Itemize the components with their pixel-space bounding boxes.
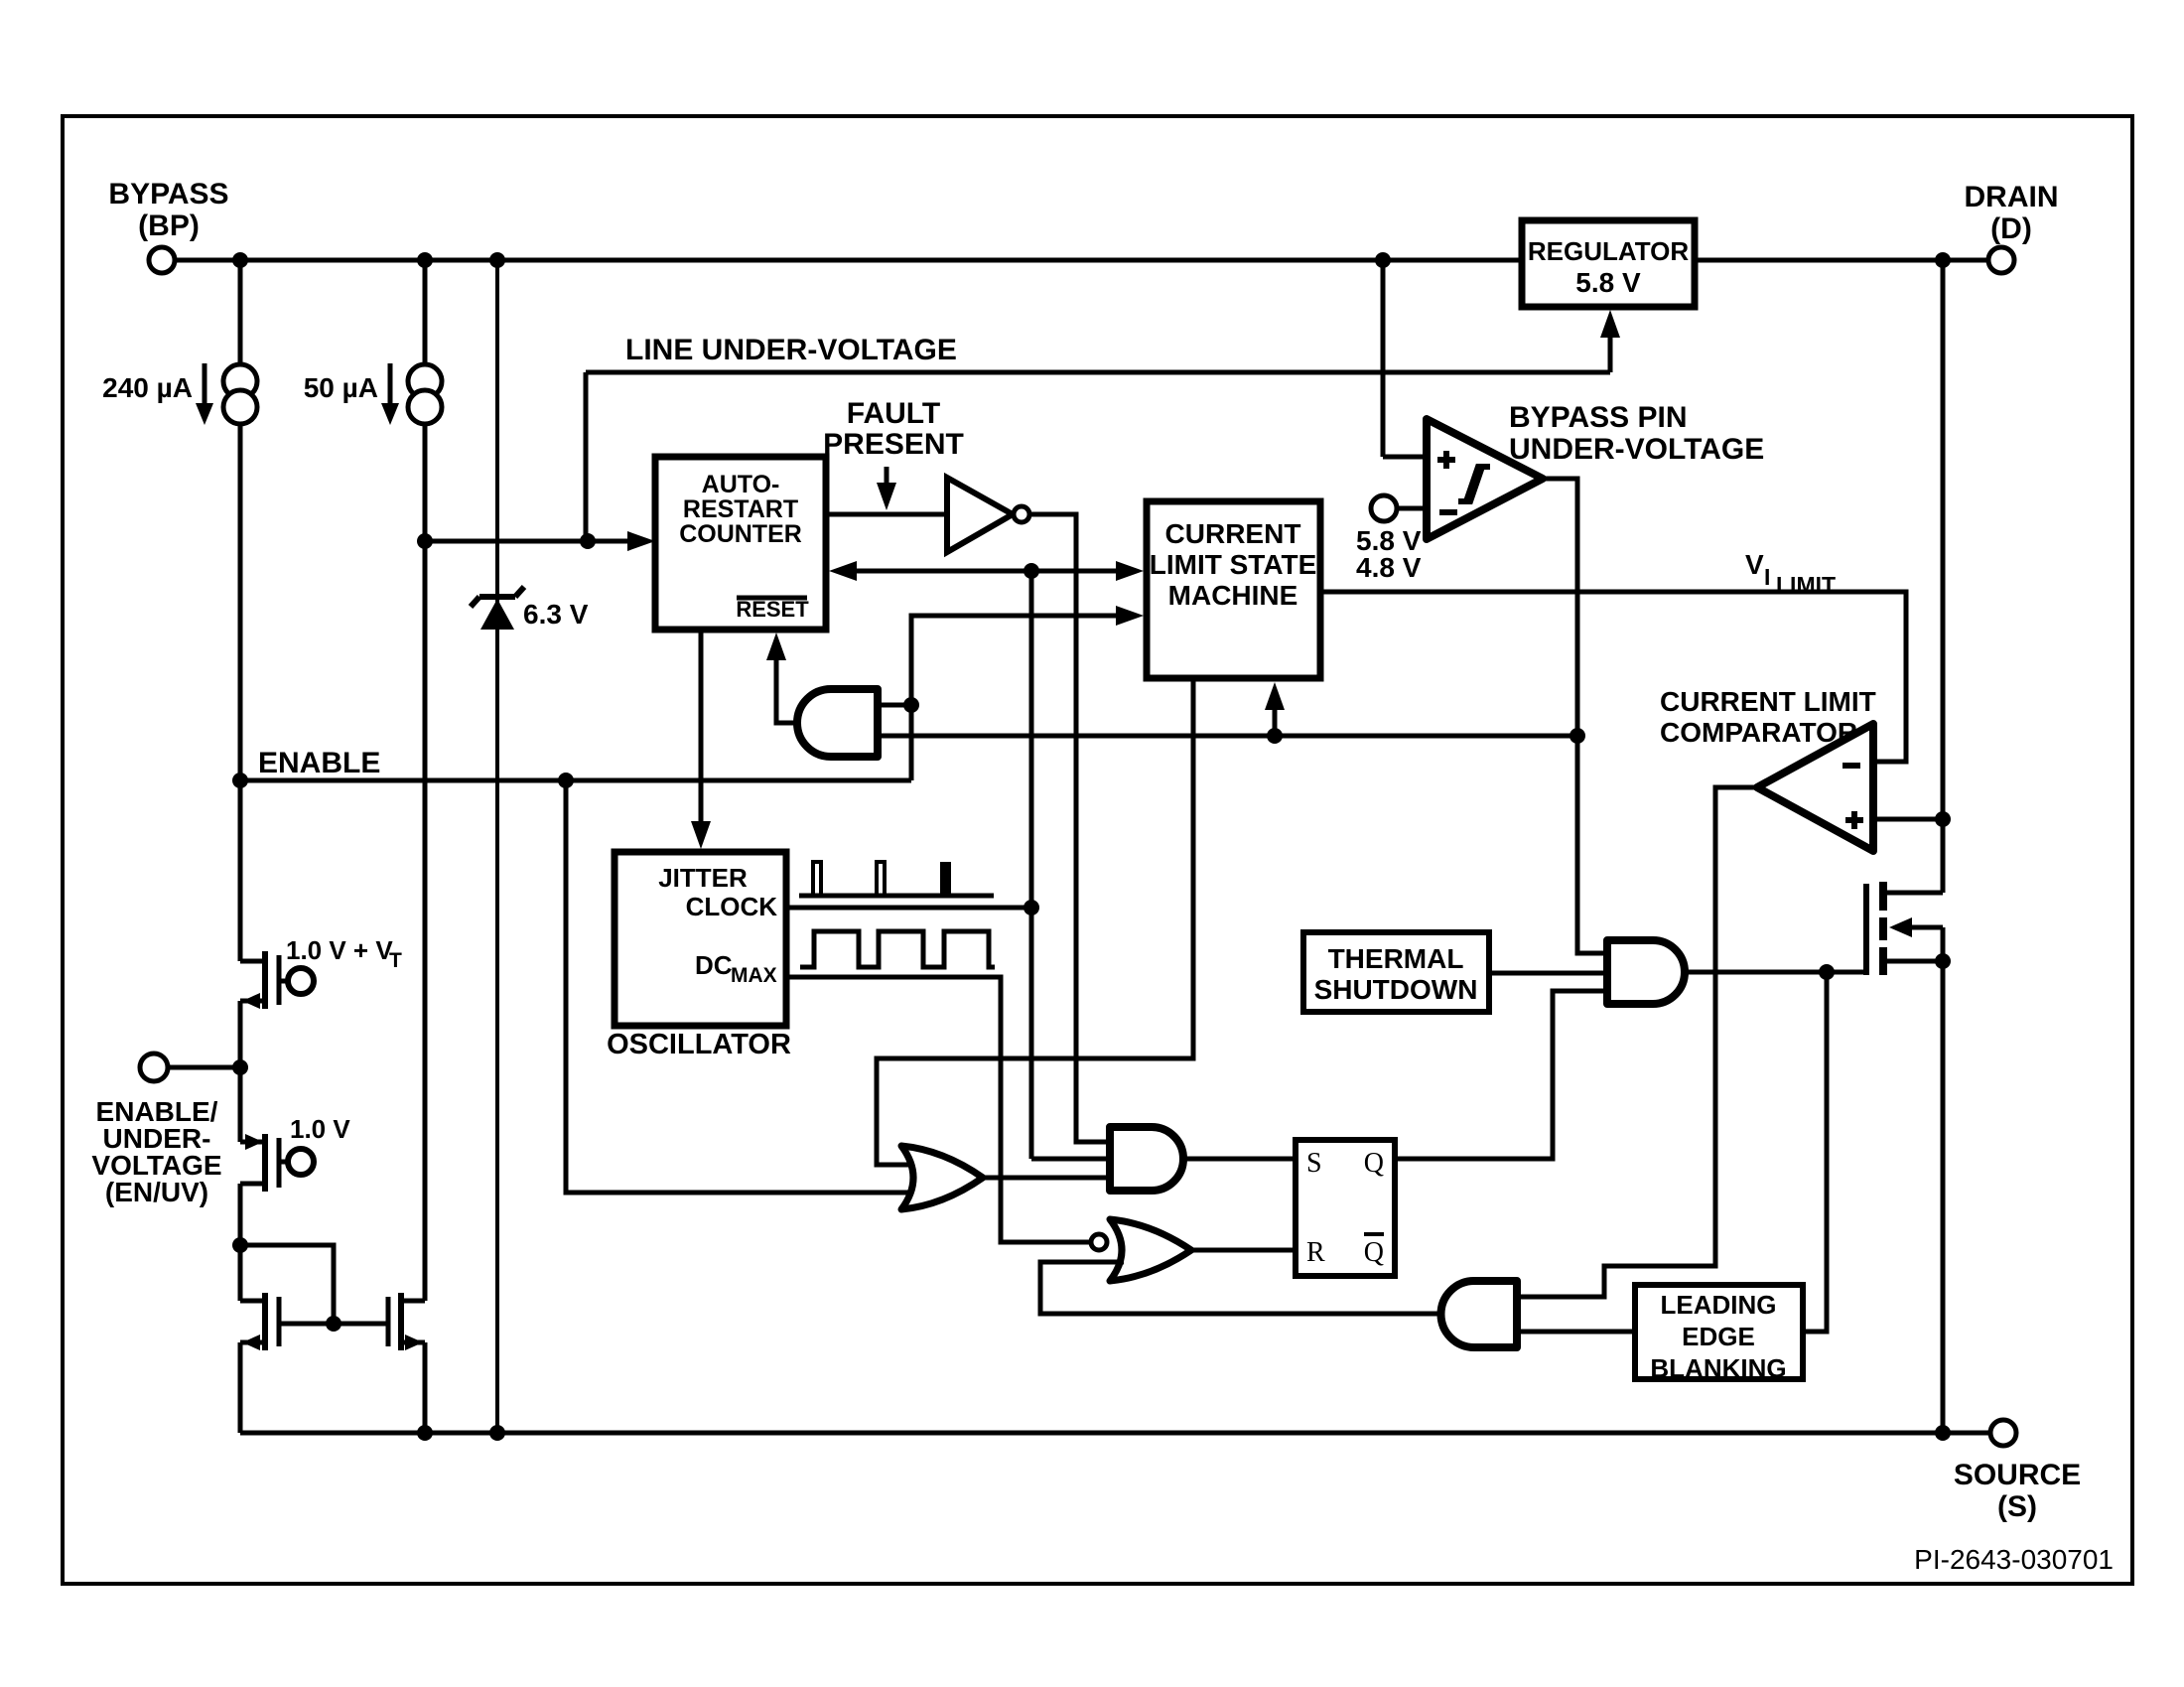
wire: CLSM output VILIMIT <box>1320 592 1906 762</box>
svg-text:R: R <box>1306 1237 1325 1268</box>
svg-text:COMPARATOR: COMPARATOR <box>1660 717 1857 748</box>
inverter U2 <box>947 478 1013 552</box>
thermal shutdown box <box>1303 932 1489 1012</box>
svg-text:THERMAL: THERMAL <box>1328 943 1464 974</box>
current source 240uA <box>223 364 257 398</box>
junction: column / mirror gate tap <box>232 1237 248 1253</box>
comparator U4 bypass pin under-voltage <box>1427 419 1543 539</box>
wire: auto-restart input from 50uA node <box>425 539 643 544</box>
wire: regulator to drain <box>1695 258 1988 263</box>
wire: clock output <box>786 906 1031 911</box>
wire: AND1 bottom input long line <box>878 734 1577 739</box>
pin ENABLE/UNDER-VOLTAGE (EN/UV) <box>140 1054 168 1081</box>
svg-text:PI-2643-030701: PI-2643-030701 <box>1914 1544 2114 1575</box>
junction: comparator output / y741 line <box>1570 728 1585 744</box>
junction: enable line / OR gate branch <box>558 773 574 788</box>
comparator U10 current limit (points left) <box>1757 724 1873 851</box>
wire: OR output to S-AND <box>981 1176 1110 1181</box>
leading edge blanking box <box>1635 1285 1803 1379</box>
current source 50uA <box>408 364 442 398</box>
junction: gate drive / LEB tap <box>1819 964 1835 980</box>
svg-text:MACHINE: MACHINE <box>1168 580 1298 611</box>
svg-text:REGULATOR: REGULATOR <box>1528 236 1689 266</box>
svg-text:(EN/UV): (EN/UV) <box>105 1177 208 1207</box>
junction: y741 line / CLSM bottom arrow <box>1267 728 1283 744</box>
regulator 5.8V box <box>1522 220 1695 307</box>
wire: column between Q1 and Q2 <box>238 1001 243 1142</box>
svg-text:FAULT: FAULT <box>847 397 940 430</box>
wire: thermal to big AND <box>1489 971 1607 976</box>
svg-text:SOURCE: SOURCE <box>1954 1459 2081 1491</box>
svg-text:V: V <box>1745 549 1764 580</box>
svg-text:JITTER: JITTER <box>658 863 748 893</box>
svg-text:RESET: RESET <box>736 597 809 622</box>
wire: bottom source rail <box>240 1431 1990 1436</box>
wire: enable down to OR gate <box>566 780 918 1193</box>
auto-restart counter box U1 <box>655 457 826 630</box>
wire: clock riser <box>1029 571 1034 1159</box>
junction: source rail / 50uA column <box>417 1425 433 1441</box>
wire: mirror gates connect <box>279 1322 388 1327</box>
oscillator box <box>614 852 786 1026</box>
wire: NOR output to latch R <box>1189 1248 1296 1253</box>
pin DRAIN (D) <box>1988 247 2014 273</box>
svg-text:AUTO-: AUTO- <box>702 471 780 498</box>
junction: arrow line / clock riser <box>1024 563 1039 579</box>
transistor Q3 mirror left <box>240 1299 265 1304</box>
wire: dcmax output down to NOR <box>786 977 1089 1242</box>
wire: mosfet source down <box>1941 961 1946 1433</box>
pin BYPASS (BP) <box>149 247 175 273</box>
wire: ARC output to inverter <box>826 512 947 517</box>
pin 5.8/4.8 reference <box>1371 495 1397 521</box>
wire: CL comparator output to LEB and gate <box>1517 787 1757 1297</box>
nor gate U7 (reset, bubble input) <box>1091 1234 1107 1250</box>
svg-text:CLOCK: CLOCK <box>686 892 778 921</box>
svg-text:BYPASS PIN: BYPASS PIN <box>1509 401 1688 434</box>
wire: enable line <box>240 778 911 783</box>
svg-text:Q: Q <box>1364 1237 1384 1268</box>
wire: 50uA column <box>423 260 428 365</box>
or gate U5 <box>901 1146 983 1209</box>
svg-text:ENABLE: ENABLE <box>258 747 380 779</box>
wire: comparator output down to big AND <box>1543 479 1607 953</box>
svg-text:BLANKING: BLANKING <box>1650 1353 1786 1383</box>
wire: zener column <box>495 260 499 596</box>
wire: inverter output down to S-AND <box>1029 514 1110 1142</box>
pin SOURCE (S) <box>1990 1420 2016 1446</box>
wire: ARC bottom to oscillator <box>699 630 704 837</box>
wire: enable to CLSM second arrow <box>911 616 1135 780</box>
transistor Q1 1.0V+VT <box>240 959 265 964</box>
svg-text:LEADING: LEADING <box>1661 1290 1777 1320</box>
arrow fault present <box>885 467 889 494</box>
junction: mirror gate tap / gate connect <box>326 1316 341 1332</box>
and gate U11 (LEB input, points left) <box>1441 1281 1518 1347</box>
wire: comparator plus input from drain sense <box>1873 817 1943 822</box>
wire: BYPASS top rail <box>175 258 1522 263</box>
svg-text:Q: Q <box>1364 1148 1384 1179</box>
junction: clock wire / clock riser <box>1024 900 1039 915</box>
transistor Q2 1.0V <box>240 1140 265 1145</box>
svg-text:LINE UNDER-VOLTAGE: LINE UNDER-VOLTAGE <box>625 334 957 366</box>
and gate U6 (set, points right) <box>1110 1127 1183 1191</box>
svg-text:4.8 V: 4.8 V <box>1356 552 1422 583</box>
svg-text:BYPASS: BYPASS <box>108 178 228 211</box>
svg-text:OSCILLATOR: OSCILLATOR <box>607 1029 791 1060</box>
svg-text:EDGE: EDGE <box>1682 1322 1755 1351</box>
and gate U9 (gate drive, points right) <box>1607 940 1685 1004</box>
junction: BP rail / zener column <box>489 252 505 268</box>
wire: U11 output to NOR <box>1040 1262 1441 1314</box>
junction: enable line / 240uA column <box>232 773 248 788</box>
latch U8 S-R <box>1296 1140 1395 1276</box>
svg-text:(BP): (BP) <box>138 210 200 242</box>
wire: CLSM bottom arrow from y741 <box>1273 692 1278 736</box>
junction: EN/UV pin / column <box>232 1059 248 1075</box>
svg-text:50 µA: 50 µA <box>304 372 378 403</box>
transistor Q4 mirror right <box>401 1299 425 1304</box>
svg-text:RESTART: RESTART <box>683 495 798 523</box>
svg-text:COUNTER: COUNTER <box>679 520 802 548</box>
junction: BP rail / 240uA column <box>232 252 248 268</box>
svg-text:5.8 V: 5.8 V <box>1575 267 1641 298</box>
junction: drain vertical / comparator plus <box>1935 811 1951 827</box>
svg-text:(D): (D) <box>1990 212 2032 245</box>
wire: 240uA column <box>238 260 243 365</box>
wire: LEB to U11 bottom input <box>1517 1330 1635 1335</box>
wire: mirror gate tap <box>240 1245 334 1324</box>
wire: drain vertical <box>1941 260 1946 893</box>
wire: AND1 top input <box>878 703 911 708</box>
wire: arrow into regulator bottom <box>1608 318 1613 372</box>
svg-text:(S): (S) <box>1997 1490 2037 1523</box>
svg-text:CURRENT: CURRENT <box>1165 518 1301 549</box>
junction: source rail / zener column <box>489 1425 505 1441</box>
wire: CLSM bottom left leg to OR gate <box>877 678 1193 1165</box>
wire: LEB input from gate node <box>1803 972 1827 1332</box>
svg-text:1.0 V: 1.0 V <box>290 1114 350 1144</box>
svg-text:MAX: MAX <box>731 964 777 987</box>
wire: latch Q to big AND <box>1395 991 1607 1159</box>
svg-text:LIMIT STATE: LIMIT STATE <box>1150 549 1317 580</box>
wire: AND1 output to RESET <box>776 641 797 723</box>
svg-text:SHUTDOWN: SHUTDOWN <box>1314 974 1478 1005</box>
svg-text:CURRENT LIMIT: CURRENT LIMIT <box>1660 686 1876 717</box>
wire: column down to mirror <box>238 1184 243 1301</box>
svg-text:PRESENT: PRESENT <box>823 428 964 461</box>
svg-text:240 µA: 240 µA <box>102 372 193 403</box>
wire: S-AND output to latch <box>1183 1157 1296 1162</box>
svg-text:S: S <box>1306 1148 1322 1179</box>
svg-text:LIMIT: LIMIT <box>1776 572 1836 598</box>
mosfet Q5 output <box>1863 884 1869 975</box>
junction: BP rail / 50uA column <box>417 252 433 268</box>
junction: enable riser / AND1 top input <box>903 697 919 713</box>
svg-text:T: T <box>389 949 402 972</box>
dcmax waveform <box>800 931 995 967</box>
wire: ARC/CLSM double arrow line <box>840 569 1135 574</box>
and gate U3 (auto-restart reset, points left) <box>797 689 878 757</box>
junction: drain rail / drain vertical <box>1935 252 1951 268</box>
junction: line under-voltage / ARC input <box>580 533 596 549</box>
svg-text:1.0 V + V: 1.0 V + V <box>286 935 393 965</box>
svg-text:DC: DC <box>695 950 733 980</box>
current limit state machine box <box>1147 501 1320 678</box>
junction: BP rail / comparator plus tap <box>1375 252 1391 268</box>
zener diode 6.3 V <box>480 599 514 630</box>
clock waveform <box>799 894 994 899</box>
wire: BP to comparator plus <box>1381 260 1386 457</box>
wire: gate drive to mosfet <box>1685 970 1864 975</box>
svg-text:I: I <box>1764 564 1770 590</box>
svg-text:6.3 V: 6.3 V <box>523 599 589 630</box>
svg-text:UNDER-VOLTAGE: UNDER-VOLTAGE <box>1509 433 1764 466</box>
junction: source rail / mosfet source <box>1935 1425 1951 1441</box>
svg-text:DRAIN: DRAIN <box>1965 181 2059 213</box>
junction: 50uA column / ARC input <box>417 533 433 549</box>
